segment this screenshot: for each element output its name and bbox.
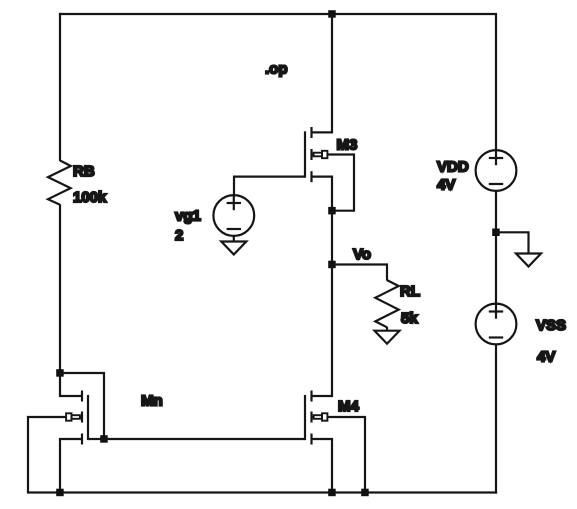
ground below RL [375,331,400,344]
Mn bulk arrow (mirrored) [66,413,82,420]
M3 drain stub [312,131,333,133]
M4 source stub to bottom rail [312,439,333,493]
M3 source stub [312,177,333,211]
svg-text:M4: M4 [338,398,359,415]
node M3 source junction [328,207,336,215]
node top-center junction [328,10,336,18]
wire Vo to RL [332,265,387,281]
node Mn gate junction [100,435,108,443]
wire VSS to bottom rail [495,344,497,493]
wire Mn drain to gate (diode connection) [60,373,104,439]
wire left rail lower [59,204,61,373]
wire M3 drain to top rail [331,14,333,134]
node Mn drain junction on left rail [56,369,64,377]
M4 middle plate [310,412,312,423]
ground right [516,254,541,267]
voltage source VDD [476,150,517,191]
transistor Mn (mirrored) [28,373,104,493]
svg-text:RB: RB [73,163,95,180]
svg-text:100k: 100k [73,189,107,206]
wire left rail upper [59,13,61,161]
M4 bulk stub wire to bottom rail [327,417,365,493]
wire RL to ground [386,327,388,331]
M4 gate bar [304,395,306,440]
wire junction to right ground [496,232,529,254]
Mn drain stub [60,373,82,396]
wire Vo to M4 drain [331,265,333,398]
node ground junction below VDD [492,229,500,237]
VSS plus sign [489,310,503,312]
node bottom-left junction [56,489,64,497]
wire top rail [59,13,497,15]
voltage source vg1 [213,195,254,236]
wire M3 gate to vg1 [234,177,305,196]
resistor RL [375,280,398,327]
svg-text:VDD: VDD [437,159,469,176]
svg-text:4V: 4V [437,177,455,194]
svg-text:VSS: VSS [536,317,566,334]
M3 gate bar [304,131,306,177]
svg-text:vg1: vg1 [175,208,201,225]
M3 bulk arrow [312,151,328,158]
resistor RB [48,161,71,205]
svg-text:4V: 4V [537,349,555,366]
Mn source stub to bottom rail [60,439,82,493]
Mn top plate [81,391,83,402]
M4 bulk arrow [312,413,328,420]
vg1 minus sign [227,228,241,230]
M4 drain stub [312,395,333,397]
Mn middle plate [81,412,83,423]
svg-text:.op: .op [265,61,288,78]
node bottom M4 source junction [328,489,336,497]
wire top rail to VDD [495,14,497,150]
M3 top plate [310,127,312,138]
wire VDD to VSS [495,191,497,304]
svg-text:5k: 5k [401,310,418,327]
VDD minus sign [489,183,503,185]
M4 bottom plate [310,434,312,445]
Mn gate lead [88,438,104,440]
M3 middle plate [310,149,312,160]
Mn gate bar [87,395,89,440]
svg-text:M3: M3 [337,137,358,154]
Mn bulk stub wire to bottom rail [28,417,66,493]
M3 bulk stub wire [327,155,354,211]
Mn bottom plate [81,434,83,445]
VSS minus sign [489,336,503,338]
node Vo junction [328,261,336,269]
vg1 plus sign [227,202,241,204]
svg-text:RL: RL [400,283,420,300]
wire bottom rail [59,491,497,493]
ground below vg1 [221,242,246,255]
M3 bottom plate [310,171,312,182]
voltage source VSS [476,304,517,345]
wire vg1 to ground [233,236,235,242]
transistor M3 [305,127,354,211]
wire gate bus Mn to M4 [104,438,305,440]
node bottom M4 bulk junction [361,489,369,497]
svg-text:Vo: Vo [353,246,371,263]
VDD plus sign [489,157,503,159]
M4 top plate [310,391,312,402]
wire center column M3 to Vo [331,211,333,265]
transistor M4 [305,391,365,493]
svg-text:Mn: Mn [141,393,163,410]
svg-text:2: 2 [175,227,183,244]
